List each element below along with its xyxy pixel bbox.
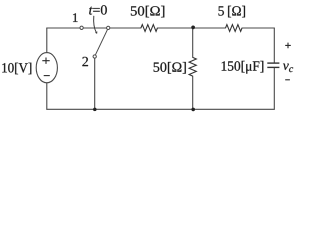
wire switch branch vertical <box>94 58 96 109</box>
label t=0 <box>89 5 107 14</box>
wire middle branch lower <box>192 76 194 109</box>
wire between switch contacts <box>84 27 107 29</box>
node label 2 <box>82 57 88 66</box>
node label 1 <box>73 13 78 22</box>
junction node bottom middle <box>191 108 195 112</box>
voltage source V1 <box>36 53 57 83</box>
label 10[V] <box>2 63 31 75</box>
wire R1 to R2 <box>157 27 225 29</box>
label 5[ohm] <box>219 6 246 18</box>
wire top-left horizontal <box>47 27 80 29</box>
capacitor polarity plus <box>285 43 291 49</box>
capacitor polarity minus <box>285 79 290 81</box>
resistor R2 5[ohm] <box>226 25 243 32</box>
wire left vertical below source <box>46 83 48 110</box>
wire middle branch upper <box>192 28 194 57</box>
switching arrow <box>94 16 97 32</box>
label 50[ohm] vertical resistor <box>154 62 186 74</box>
label 150[uF] <box>222 61 264 74</box>
switch contact node 2 <box>93 55 96 58</box>
wire right vertical above capacitor <box>273 28 275 63</box>
wire pivot to resistor R1 <box>110 27 141 29</box>
label 50[ohm] top <box>131 6 164 18</box>
switch blade <box>96 30 108 55</box>
source polarity minus <box>44 75 50 77</box>
junction node top middle <box>191 26 195 30</box>
resistor R3 50[ohm] vertical <box>189 57 196 76</box>
resistor R1 50[ohm] top <box>141 25 158 32</box>
wire bottom horizontal <box>47 108 274 110</box>
switch contact node 1 <box>80 26 83 29</box>
capacitor C 150[uF] <box>267 63 279 67</box>
source polarity plus <box>42 58 49 64</box>
wire R2 to top-right corner <box>242 27 274 29</box>
switching arrow head <box>95 31 97 34</box>
label vc <box>283 64 293 73</box>
wire left vertical above source <box>46 28 48 53</box>
switch pivot contact <box>107 26 110 29</box>
junction node bottom switch branch <box>93 108 97 112</box>
wire right vertical below capacitor <box>273 68 275 109</box>
